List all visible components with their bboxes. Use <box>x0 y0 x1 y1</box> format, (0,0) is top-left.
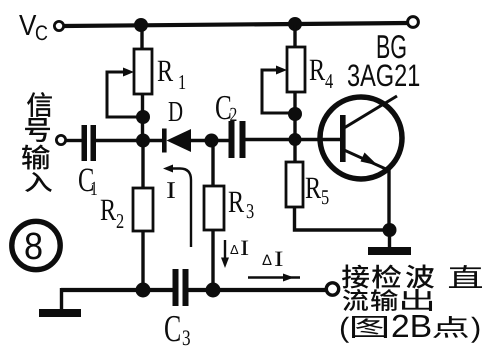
label R4 sub 4 <box>325 74 333 88</box>
node junction R2 bottom <box>136 283 151 298</box>
wire R2 top lead <box>141 140 144 189</box>
label Vc subscript C <box>36 25 47 40</box>
label current I <box>167 182 175 198</box>
label ru (col 4) <box>25 172 52 192</box>
label open paren <box>341 317 349 343</box>
label shu-2 <box>371 289 398 311</box>
label tu (line3) <box>352 316 387 338</box>
terminal DC output <box>326 283 338 295</box>
label 2B <box>393 315 431 337</box>
transistor collector lead <box>344 96 397 128</box>
label D <box>169 102 183 121</box>
node junction R1 wiper <box>136 110 150 124</box>
capacitor C2 <box>229 121 246 158</box>
resistor R1 <box>134 49 152 94</box>
figure number 8 <box>25 232 41 259</box>
R4 wiper arrow <box>262 70 292 113</box>
label C1 sub 1 <box>91 182 96 195</box>
ground left <box>39 288 81 317</box>
wire R2 bottom lead <box>141 231 144 292</box>
figure number circle <box>12 221 60 269</box>
label BG <box>378 35 406 58</box>
node junction base <box>289 133 302 146</box>
wire R3 top lead <box>211 140 214 187</box>
wire bottom rail left <box>61 288 174 292</box>
label Vc V <box>19 15 36 35</box>
label dian <box>433 316 468 338</box>
terminal Vc input <box>54 21 63 30</box>
label deltaI-2 delta <box>262 255 271 265</box>
label deltaI-1 delta <box>230 245 238 254</box>
label R2 sub 2 <box>117 214 124 228</box>
current I hook arrow <box>163 165 191 248</box>
label R2 R <box>101 200 116 220</box>
label R5 sub 5 <box>322 190 329 204</box>
label R1 sub 1 <box>179 75 185 89</box>
label shu (col 3) <box>22 144 50 169</box>
wire R5 bottom to emitter <box>295 207 391 230</box>
label chu <box>402 289 432 311</box>
label bo <box>406 264 434 288</box>
terminal top right <box>408 17 419 28</box>
resistor R5 <box>286 162 303 207</box>
wire R1 top lead <box>140 26 143 50</box>
terminal signal input <box>56 135 65 144</box>
label zhi <box>449 265 482 288</box>
wire top rail Vc <box>63 23 408 26</box>
resistor R2 <box>133 188 153 231</box>
label deltaI-1 I <box>241 241 248 255</box>
label 3AG21 <box>348 64 419 86</box>
label jie (output line1) <box>342 265 369 289</box>
label C1 C <box>79 168 93 191</box>
transistor emitter lead with arrow <box>344 150 388 170</box>
node junction R3 bottom <box>206 283 221 298</box>
label C3 C <box>165 316 180 342</box>
wire C1 to node <box>96 139 163 142</box>
label close paren <box>471 317 479 343</box>
label xin (signal-in col 1) <box>27 92 52 117</box>
node junction diode/R3/C2 <box>205 134 219 148</box>
wire bottom rail right <box>188 288 326 292</box>
node junction R4 wiper <box>288 107 302 121</box>
current deltaI down arrow <box>221 240 229 268</box>
wire R4 bottom lead <box>293 92 296 142</box>
current deltaI right arrow <box>248 274 300 282</box>
transistor base bar <box>340 115 346 162</box>
wire input to C1 <box>66 139 82 142</box>
ground emitter <box>368 230 411 255</box>
label C2 sub 2 <box>230 108 236 121</box>
node junction input <box>136 134 150 148</box>
diode D <box>162 129 191 153</box>
label R3 R <box>229 192 244 212</box>
label C2 C <box>216 96 230 120</box>
wire C2 to base node <box>245 138 298 141</box>
label jian <box>372 265 401 289</box>
label deltaI-2 I <box>275 252 282 266</box>
node junction emitter/R5 <box>383 223 397 237</box>
label R5 R <box>306 178 321 198</box>
label hao (col 2) <box>25 118 50 142</box>
label liu (line2) <box>343 289 368 311</box>
label R4 R <box>310 60 325 80</box>
wire R1 bottom lead <box>141 94 144 141</box>
wire R3 bottom lead <box>211 230 214 292</box>
node junction top of R4 <box>288 17 302 31</box>
label C3 sub 3 <box>183 330 190 345</box>
resistor R4 <box>287 47 305 92</box>
capacitor C1 <box>82 125 97 161</box>
label R1 R <box>158 61 173 81</box>
wire base node to transistor <box>295 138 341 141</box>
label R3 sub 3 <box>247 204 254 218</box>
R1 wiper arrow <box>107 72 140 117</box>
transistor Q1 circle <box>320 97 402 179</box>
node junction top of R1 <box>134 18 148 32</box>
resistor R3 <box>204 186 224 230</box>
capacitor C3 <box>173 269 189 306</box>
wire R5 top lead <box>293 140 296 164</box>
wire emitter down <box>387 168 390 231</box>
wire diode to node <box>190 139 230 142</box>
wire R4 top lead <box>293 25 296 48</box>
